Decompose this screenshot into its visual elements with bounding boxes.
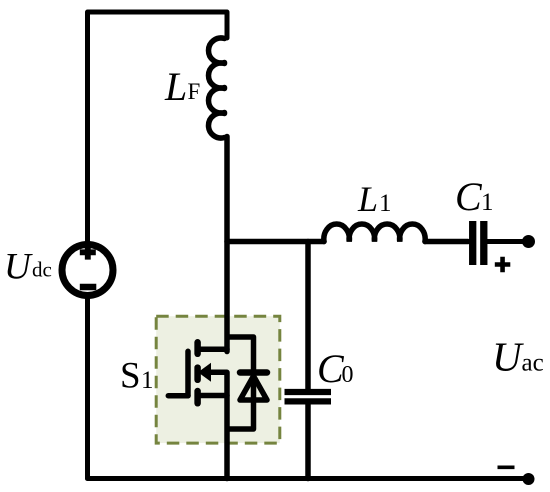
transistor S1 channel bar bottom xyxy=(194,391,201,403)
label C1 xyxy=(455,174,494,219)
transistor S1 gate lead xyxy=(168,393,188,399)
voltage source U_dc xyxy=(62,245,113,296)
svg-text:1: 1 xyxy=(481,189,494,216)
transistor S1 channel bar top xyxy=(194,342,201,354)
svg-text:C: C xyxy=(455,174,483,219)
svg-text:F: F xyxy=(188,79,201,104)
transistor S1 drain stub xyxy=(200,346,227,352)
svg-text:ac: ac xyxy=(522,350,544,377)
wire node to C0 top xyxy=(305,242,311,390)
label LF xyxy=(164,64,200,109)
svg-text:1: 1 xyxy=(141,367,154,394)
inductor L1 (horizontal coil) xyxy=(324,224,425,241)
minus label at output xyxy=(498,465,515,469)
label C0 xyxy=(317,346,354,391)
wire C0 bottom to bottom rail xyxy=(305,405,311,479)
transistor S1 body arrow xyxy=(198,363,227,382)
wire drain node to L1 (mid horizontal) xyxy=(227,239,324,245)
transistor S1 channel bar middle xyxy=(194,368,201,380)
body diode triangle xyxy=(240,376,267,400)
inductor LF (vertical coil) xyxy=(208,38,224,138)
capacitor C0 xyxy=(285,392,332,401)
svg-text:1: 1 xyxy=(379,190,392,217)
wire top-left loop (Udc+ to LF top) xyxy=(88,12,228,243)
plus label at output xyxy=(495,257,511,272)
body diode branch top wire xyxy=(227,337,254,370)
capacitor C1 xyxy=(473,221,484,265)
bottom rail wire xyxy=(88,476,528,481)
wire Udc- down to bottom rail xyxy=(85,297,90,479)
minus mark inside Udc xyxy=(80,284,97,291)
label L1 xyxy=(357,179,392,219)
svg-text:L: L xyxy=(357,179,378,219)
svg-text:dc: dc xyxy=(32,258,52,282)
body diode branch bottom wire xyxy=(227,374,254,429)
svg-text:U: U xyxy=(492,334,524,380)
label S1 xyxy=(120,356,154,397)
body diode cathode bar xyxy=(240,369,267,376)
plus mark inside Udc xyxy=(80,247,96,260)
wire L1 to C1 xyxy=(425,239,468,245)
svg-text:L: L xyxy=(164,64,187,109)
output positive terminal node xyxy=(522,235,535,248)
wire source to bottom rail (main vertical, source segment) xyxy=(224,372,230,478)
label Udc xyxy=(4,247,52,288)
wire LF bottom to MOSFET drain (main vertical, drain segment) xyxy=(224,137,230,352)
label Uac xyxy=(492,334,544,380)
svg-text:0: 0 xyxy=(342,362,354,388)
transistor S1 gate bar xyxy=(185,351,191,395)
MOSFET enclosure dashed box xyxy=(156,316,280,443)
output negative terminal node xyxy=(523,473,535,485)
svg-text:U: U xyxy=(4,247,33,288)
wire C1 to output positive terminal xyxy=(487,239,527,244)
svg-text:S: S xyxy=(120,356,141,397)
transistor S1 source stub xyxy=(198,393,227,399)
